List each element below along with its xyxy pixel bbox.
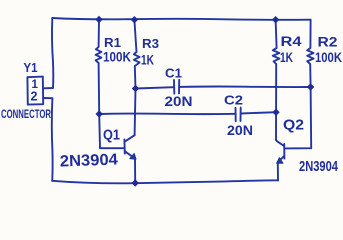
svg-text:2: 2 — [31, 90, 38, 104]
wire C2 row right to Q2 collector node — [241, 112, 276, 113]
junction dot C1 row right / R2 bottom — [307, 83, 314, 90]
svg-text:R1: R1 — [104, 36, 121, 50]
junction dot R3 bottom / Q1 collector — [132, 85, 139, 92]
svg-text:100K: 100K — [103, 50, 131, 65]
junction dot C2 row right / Q2 collector — [272, 109, 279, 116]
wire top rail Vcc — [52, 18, 310, 20]
wire C1 row right to R2 bottom — [179, 85, 310, 88]
wire collector node Q1 row (C1 row left) — [136, 87, 174, 88]
svg-text:C1: C1 — [165, 67, 182, 81]
wire R1 bottom down to Q1 base — [99, 114, 124, 148]
wire C2 row left from R1 bottom — [99, 113, 235, 116]
transistor Q1 — [124, 89, 136, 184]
junction dot rail R1 — [95, 16, 102, 23]
svg-text:20N: 20N — [227, 122, 253, 138]
wire bottom rail — [52, 180, 278, 183]
svg-text:Y1: Y1 — [24, 61, 38, 75]
svg-text:1K: 1K — [141, 52, 154, 68]
junction dot Q1 emitter / ground rail — [132, 179, 139, 186]
wire pin 2 stub down to ground rail — [43, 98, 52, 181]
transistor Q2 — [276, 140, 284, 181]
svg-text:2N3904: 2N3904 — [299, 159, 338, 175]
wire R2 bottom down to Q2 base — [284, 87, 311, 148]
svg-text:Q1: Q1 — [103, 128, 120, 144]
svg-text:R2: R2 — [318, 35, 338, 50]
svg-text:R3: R3 — [142, 36, 159, 51]
capacitor C2 — [236, 108, 241, 122]
resistor R1 — [96, 20, 102, 115]
resistor R3 — [134, 20, 140, 89]
svg-text:Q2: Q2 — [283, 117, 304, 134]
svg-text:1K: 1K — [280, 49, 293, 65]
svg-text:2N3904: 2N3904 — [60, 151, 119, 170]
resistor R2 — [307, 20, 313, 87]
resistor R4 — [273, 20, 280, 140]
junction dot R1 bottom / C2 row — [96, 110, 103, 117]
junction dot rail R3 — [131, 16, 138, 23]
svg-text:R4: R4 — [281, 34, 303, 49]
svg-text:CONNECTOR: CONNECTOR — [1, 107, 51, 121]
wire left riser to pin 1 — [43, 18, 53, 88]
capacitor C1 — [174, 80, 179, 94]
svg-text:100K: 100K — [315, 50, 342, 65]
svg-text:C2: C2 — [224, 93, 243, 108]
connector Y1 box — [27, 77, 43, 105]
junction dot rail R4 — [272, 16, 279, 23]
svg-text:20N: 20N — [165, 93, 193, 109]
